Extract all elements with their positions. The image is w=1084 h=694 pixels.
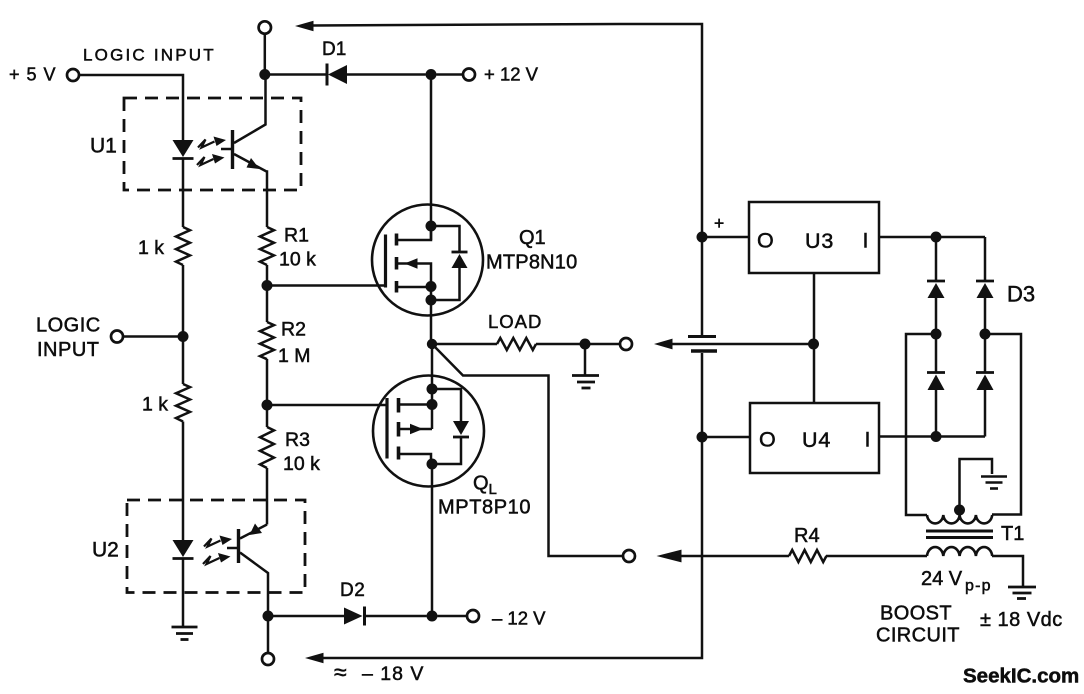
diode D3 left lower [927,371,945,374]
node Q1 drain dot [426,221,437,232]
wire LOAD output [432,343,497,346]
phototransistor U1 emitter [234,154,267,227]
node top terminal [259,21,271,33]
wire R3 to U2 transistor [266,468,269,525]
svg-text:– 12 V: – 12 V [492,608,546,629]
svg-text:O: O [759,428,776,452]
wire D3 left chain top lead [935,237,938,281]
arrow -18V pointing left [305,653,324,663]
svg-text:R3: R3 [285,429,310,451]
node R2/R3 gate junction [262,400,273,411]
node QL drain dot [427,459,438,470]
node T1 primary center tap [954,505,965,516]
svg-text:≈: ≈ [334,659,347,685]
transformer T1 primary winding [927,515,992,523]
wire QL source diagonal to lower output [432,344,623,556]
svg-text:± 18 Vdc: ± 18 Vdc [980,609,1063,631]
wire secondary right to ground [992,556,1023,587]
svg-text:INPUT: INPUT [37,339,100,361]
svg-text:U1: U1 [90,135,117,158]
wire gate QL [267,404,387,407]
diode D3 left upper [927,280,945,283]
terminal +5V input [67,69,79,81]
node Q1 body-diode bottom dot [426,295,437,306]
resistor R2 1M [260,322,274,359]
resistor R4 [789,550,826,562]
arrow LOAD return pointing left [654,339,673,350]
wire U4 O input [702,436,750,439]
wire D3 right chain mid lead [984,297,987,373]
wire QL source link [399,403,433,406]
transistor Q1 channel dashes [395,234,399,293]
svg-text:D2: D2 [340,580,365,601]
svg-text:L: L [489,481,497,498]
LED U1 [173,140,194,157]
arrow U2 emitter [250,524,263,536]
wire center tap bracket to ground [960,459,993,513]
svg-text:1 M: 1 M [278,345,311,367]
node LOAD ground junction [580,339,591,350]
phototransistor U2 emitter (top) [240,525,267,539]
wire D2 segments [268,615,344,618]
regulator U4 box [750,403,879,473]
ground LOAD [584,344,587,376]
wire 1k to U2 LED [182,422,185,541]
svg-text:+: + [714,213,724,233]
wire left mid tap down to primary [906,334,936,515]
arrow top feedback pointing left [295,21,314,31]
resistor LOAD [497,338,536,350]
svg-text:D3: D3 [1007,282,1035,307]
transistor QL channel dashes [397,398,401,460]
wire LOAD return to U3/U4 midpoint [673,343,814,346]
wire +5V to U1 LED [79,75,184,140]
wire QL drain link [399,454,432,464]
arrow QL body pointing right [410,424,423,434]
node R1/R2 gate junction [262,280,273,291]
svg-text:LOAD: LOAD [488,311,542,332]
svg-text:U4: U4 [802,428,831,452]
svg-text:MTP8N10: MTP8N10 [486,252,577,274]
body diode QL [432,389,461,421]
wire Q1 drain link [397,226,432,240]
svg-text:U3: U3 [805,229,834,253]
phototransistor U2 collector (bottom) [240,553,268,612]
resistor 1k (left lower) [176,384,190,422]
wire gate Q1 [267,284,386,287]
phototransistor U2 base stub [227,547,239,550]
wire -18V line [323,353,702,658]
wire U3 O input [702,236,749,239]
node LOAD junction (Q1 source / QL source) [427,339,437,349]
node D3 right mid junction [980,329,991,340]
node logic input junction [178,331,189,342]
terminal +12V [463,69,475,81]
terminal -12V [467,610,479,622]
diode D1 [328,65,347,84]
battery plate top [688,335,716,338]
wire LOAD resistor to terminal [536,343,621,346]
body diode Q1 [431,226,460,252]
svg-text:+ 12 V: + 12 V [484,64,539,85]
ground T1 secondary [1008,587,1036,599]
arrow lower output pointing left [657,550,682,563]
svg-text:Q: Q [473,473,489,495]
transistor Q1 gate bar [384,235,387,288]
svg-text:LOGIC INPUT: LOGIC INPUT [83,46,216,65]
svg-text:BOOST: BOOST [880,603,952,625]
node Q1 source dot [426,281,437,292]
phototransistor U1 collector [234,75,266,144]
svg-text:Q1: Q1 [519,227,546,249]
terminal -18V [262,653,274,665]
wire feedback top line to right rail [313,24,702,335]
node U3/U4 mid junction [808,339,819,350]
optocoupler U1 dashed box [124,98,301,190]
diode D2 [344,608,363,625]
wire R2 to R3 [266,359,269,427]
svg-text:LOGIC: LOGIC [36,315,101,337]
svg-text:1 k: 1 k [142,394,168,416]
light arrows U2 [203,536,232,565]
wire D3 left chain bottom lead [935,389,938,437]
svg-text:R4: R4 [794,525,820,547]
optocoupler U2 dashed box [127,500,305,593]
svg-text:D1: D1 [322,39,346,60]
light arrows U1 [197,137,226,166]
svg-text:10 k: 10 k [279,249,316,271]
wire D3 right chain top lead [984,237,987,281]
wire U3 to U4 link [813,273,816,403]
wire U3 I output [879,236,985,239]
ground T1 center tap [981,477,1007,489]
resistor 1k (left upper) [176,227,190,265]
wire +12V rail down into Q1 [430,75,433,241]
LED U2 [173,540,194,557]
wire D3 right chain bottom lead [984,389,987,437]
terminal lower output [623,550,635,562]
node QL body-diode top dot [427,384,438,395]
wire U2 LED to ground [182,559,185,628]
wire QL body link with arrow [399,428,433,431]
diode D3 right lower [976,371,994,374]
node U2 collector / D2 junction [263,611,274,622]
node battery + / U3 O junction [697,232,708,243]
wire lower output to R4 [675,555,789,558]
node U4 O junction [697,432,708,443]
svg-text:R2: R2 [281,319,306,341]
node D3 left mid junction [931,329,942,340]
wire QL drain down to D2 node [431,464,434,616]
node junction D1/collector [259,69,270,80]
wire U1 LED to 1k [182,159,185,228]
svg-text:T1: T1 [1001,523,1024,545]
phototransistor U1 base stub [221,148,233,151]
transformer T1 secondary winding [927,547,992,556]
resistor R3 10k [260,427,274,468]
svg-text:p-p: p-p [965,578,992,595]
wire 1k to logic-input node [182,265,185,384]
svg-text:I: I [863,229,869,253]
wire logic input terminal to junction [123,335,184,338]
terminal LOAD [620,338,632,350]
arrow Q1 body pointing left [405,258,418,268]
svg-text:+ 5 V: + 5 V [9,65,57,85]
battery plate bottom [691,349,717,353]
wire top terminal down to +12V rail [264,34,267,75]
svg-text:I: I [865,428,871,452]
wire R1 to R2 [266,265,269,322]
wire U4 I output [879,435,985,438]
node U3 I / D3 junction [931,232,942,243]
wire R4 to transformer secondary [826,555,927,558]
svg-text:R1: R1 [284,225,309,247]
svg-text:10 k: 10 k [283,453,320,475]
svg-text:24 V: 24 V [921,568,963,590]
transistor QL MPT8P10 body circle [373,376,484,487]
node junction +12V / Q1 drain [426,69,437,80]
svg-text:CIRCUIT: CIRCUIT [876,625,960,647]
resistor R1 10k [260,227,274,265]
transformer T1 core [926,530,993,533]
ground U2 LED [172,627,198,640]
phototransistor U2 base bar [237,529,240,563]
diode D3 right upper [976,280,994,283]
wire Q1 source link [397,286,432,289]
node U4 I / D3 junction [931,431,942,442]
svg-text:MPT8P10: MPT8P10 [438,497,531,519]
svg-text:SeekIC.com: SeekIC.com [963,665,1079,688]
arrow U1 emitter [247,158,260,169]
svg-text:– 18 V: – 18 V [362,663,424,685]
svg-text:1 k: 1 k [138,237,164,259]
node D2 / QL drain junction [427,611,438,622]
node QL source dot [427,399,438,410]
transistor QL gate bar [385,398,388,459]
wire QL source rail [431,344,434,429]
regulator U3 box [749,202,879,273]
wire Q1 body link with arrow [397,264,432,345]
wire junction down to -18V terminal [267,616,270,654]
terminal LOGIC INPUT [111,331,123,343]
wire D1 anode-cathode segments [270,73,327,76]
svg-text:U2: U2 [92,539,119,562]
transistor Q1 MTP8N10 body circle [372,205,483,316]
wire right mid tap down to primary [985,334,1021,515]
phototransistor U1 base bar [231,130,234,169]
svg-text:O: O [757,229,774,253]
wire D3 left chain mid lead [935,297,938,373]
